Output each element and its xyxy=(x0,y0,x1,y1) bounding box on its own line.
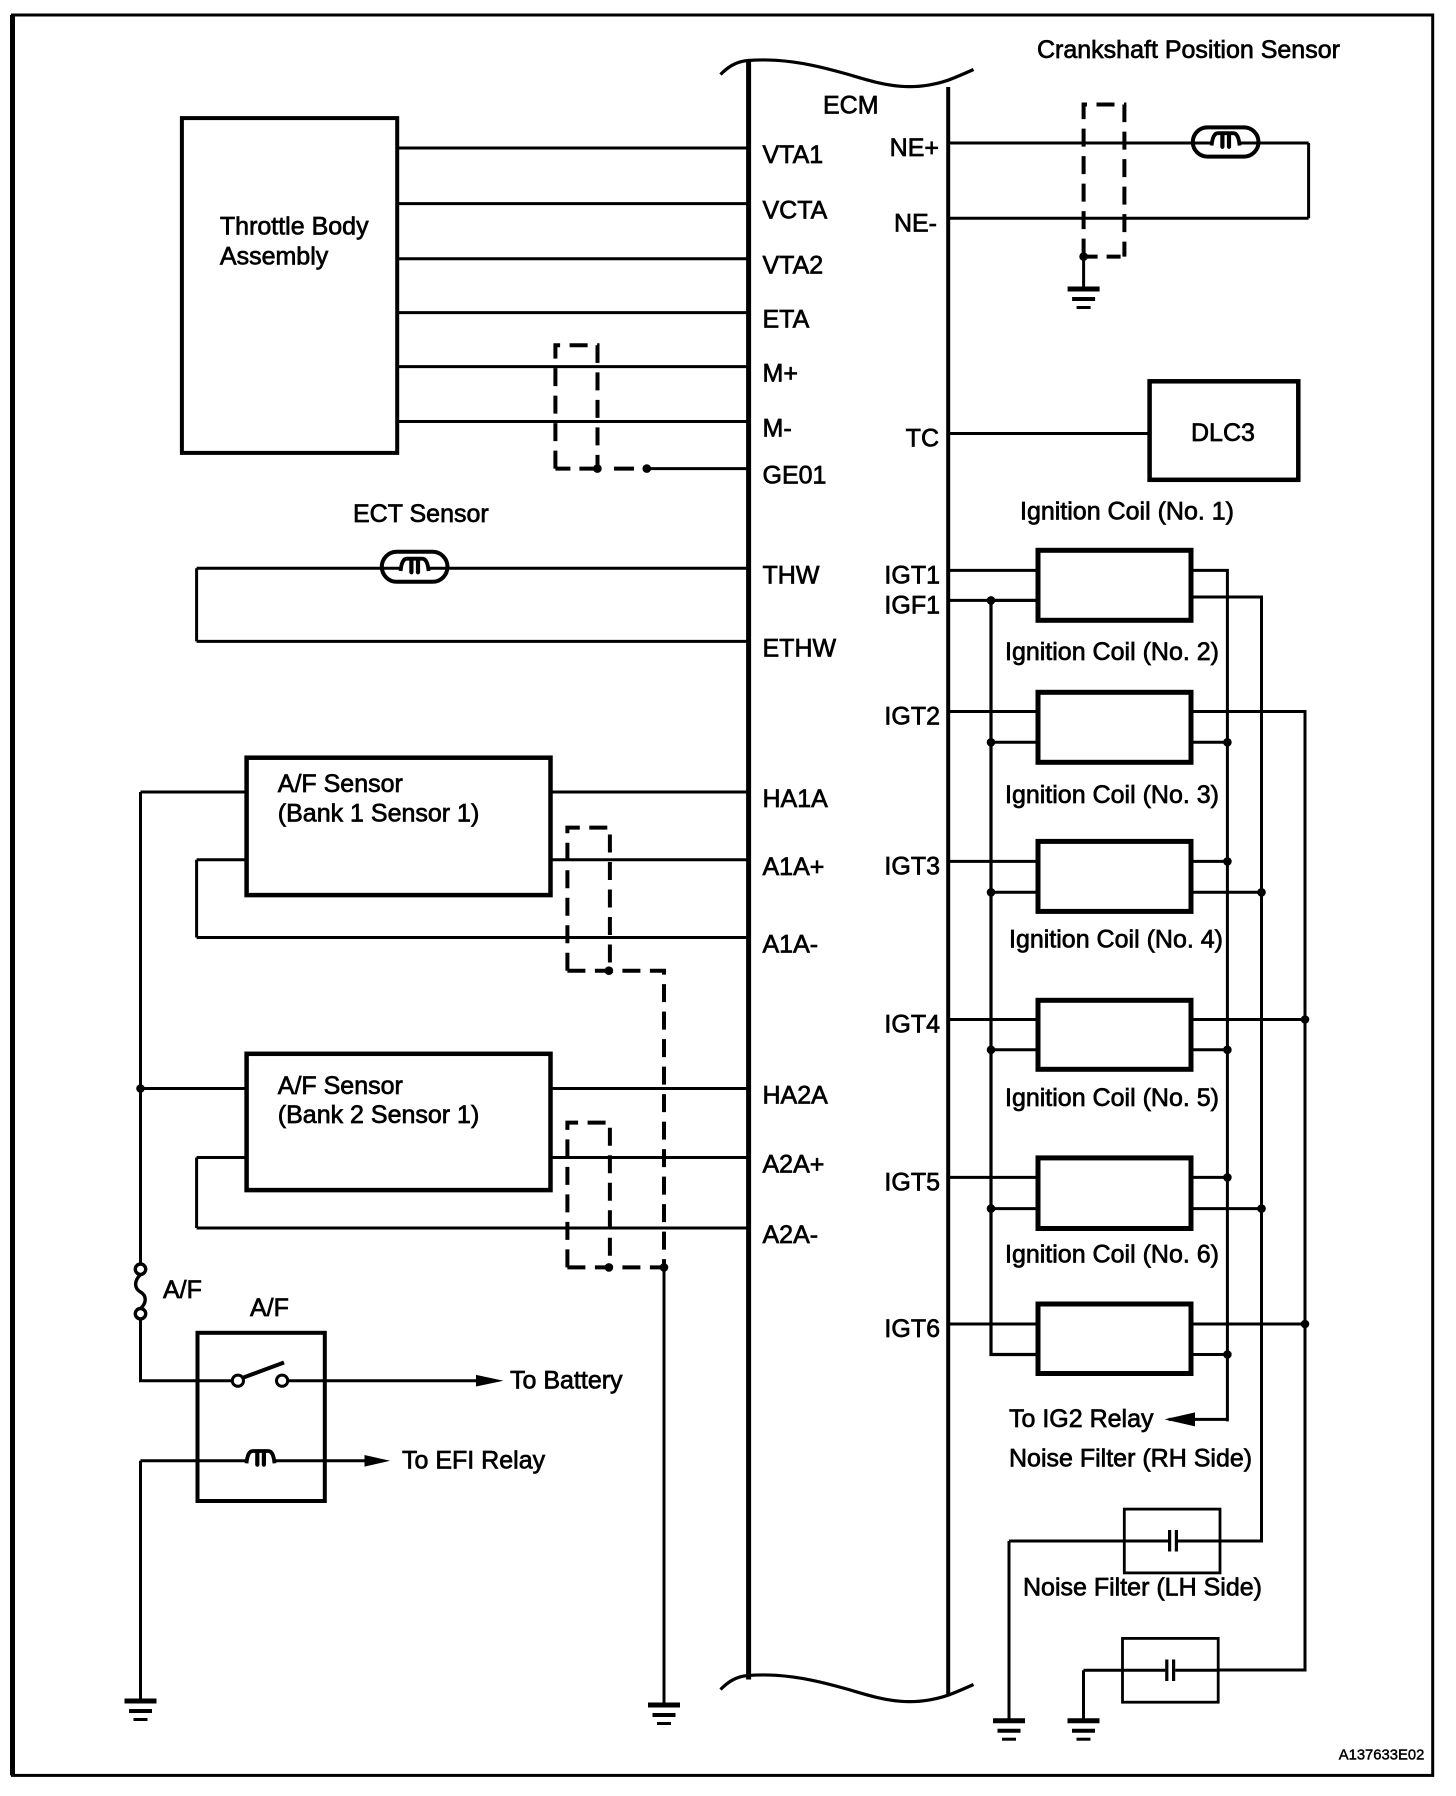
svg-text:A2A+: A2A+ xyxy=(763,1151,825,1179)
A/F relay box xyxy=(198,1333,325,1501)
svg-text:Throttle Body: Throttle Body xyxy=(220,213,369,241)
relay switch contact left xyxy=(232,1375,243,1386)
svg-text:Ignition Coil (No. 6): Ignition Coil (No. 6) xyxy=(1005,1241,1219,1269)
coil2 IGT2 wire xyxy=(948,710,1038,713)
noise filter LH box xyxy=(1123,1638,1219,1702)
svg-text:Crankshaft Position Sensor: Crankshaft Position Sensor xyxy=(1037,36,1340,64)
ECT sensor coil element xyxy=(401,559,429,573)
svg-text:Ignition Coil (No. 2): Ignition Coil (No. 2) xyxy=(1005,638,1219,666)
coil4 lower-left wire xyxy=(991,1048,1038,1051)
wire HA1A right segment xyxy=(551,791,749,794)
svg-text:IGT2: IGT2 xyxy=(884,703,940,731)
svg-text:M+: M+ xyxy=(763,360,798,388)
coil6 IGT6 wire xyxy=(948,1323,1038,1326)
crank shield bottom dashed xyxy=(1084,255,1125,259)
ECT sensor body xyxy=(382,552,448,582)
svg-text:To IG2 Relay: To IG2 Relay xyxy=(1009,1405,1154,1433)
wire GE01 xyxy=(647,467,749,470)
wire fuse to relay xyxy=(141,1319,233,1381)
NF LH capacitor left plate xyxy=(1165,1660,1168,1682)
svg-text:ETHW: ETHW xyxy=(763,634,837,662)
shield around NE wires xyxy=(1084,105,1125,257)
wire A1A+ left segment xyxy=(197,858,247,861)
wire A2A+ left segment xyxy=(197,1156,247,1159)
svg-text:To Battery: To Battery xyxy=(510,1367,623,1395)
ECM left edge xyxy=(746,62,751,1680)
bus C junction dots xyxy=(1301,1015,1310,1328)
svg-text:Ignition Coil (No. 4): Ignition Coil (No. 4) xyxy=(1009,926,1223,954)
coil4 IGT4 wire xyxy=(948,1018,1038,1021)
wire NE- xyxy=(948,217,1308,220)
wire IGT1 xyxy=(948,569,1038,572)
coil1 right top wire to bus A xyxy=(1169,570,1228,1421)
coil3 right top wire xyxy=(1191,860,1227,863)
IGF bus junction dots xyxy=(987,596,996,1213)
wire GE01 dashed part xyxy=(614,467,634,471)
A/F sensor bank1 box xyxy=(247,758,551,895)
svg-text:VCTA: VCTA xyxy=(763,197,828,225)
svg-text:ECT Sensor: ECT Sensor xyxy=(353,500,489,528)
coil2 right top wire to bus C xyxy=(1191,712,1305,1671)
junction dot shield2 xyxy=(605,1263,614,1272)
svg-text:VTA2: VTA2 xyxy=(763,252,824,280)
svg-text:A/F Sensor: A/F Sensor xyxy=(278,770,403,798)
junction dot shield1 xyxy=(605,966,614,975)
junction dot drain xyxy=(660,1263,669,1272)
junction dot GE01 xyxy=(643,464,652,473)
wire HA1A left segment xyxy=(141,791,247,794)
svg-text:A/F Sensor: A/F Sensor xyxy=(278,1072,403,1100)
junction dot shield/GE01 xyxy=(593,464,602,473)
wire IGF1 xyxy=(948,599,1038,602)
ignition coil no6 box xyxy=(1038,1304,1191,1374)
svg-text:GE01: GE01 xyxy=(763,462,827,490)
coil4 right bottom wire xyxy=(1191,1048,1227,1051)
fuse A/F element xyxy=(136,1275,146,1309)
wire VCTA xyxy=(399,202,749,205)
heater supply vertical xyxy=(139,792,142,1264)
fuse A/F top circle xyxy=(135,1264,145,1274)
wire M- xyxy=(399,420,749,423)
ignition coil no2 box xyxy=(1038,692,1191,762)
NF RH capacitor right plate xyxy=(1175,1530,1178,1552)
svg-text:A/F: A/F xyxy=(250,1294,289,1322)
ignition coil no5 box xyxy=(1038,1158,1191,1229)
crank sensor inner wire xyxy=(1193,142,1259,145)
svg-text:A1A+: A1A+ xyxy=(763,853,825,881)
svg-text:A1A-: A1A- xyxy=(763,931,819,959)
svg-text:M-: M- xyxy=(763,415,792,443)
ignition coil no3 box xyxy=(1038,841,1191,911)
NF RH capacitor left plate xyxy=(1168,1530,1171,1552)
bus A junction dots xyxy=(1223,738,1232,1359)
NF RH wire left xyxy=(1009,1540,1168,1543)
ECM top torn edge xyxy=(721,60,974,87)
svg-text:IGT4: IGT4 xyxy=(884,1011,940,1039)
ECT sensor inner wire xyxy=(382,567,448,570)
junction dot HA2A xyxy=(136,1084,145,1093)
svg-text:IGF1: IGF1 xyxy=(884,591,940,619)
svg-text:Assembly: Assembly xyxy=(220,242,329,270)
throttle body assembly box xyxy=(182,118,397,453)
coil6 right bottom wire xyxy=(1191,1353,1227,1356)
svg-text:Ignition Coil (No. 1): Ignition Coil (No. 1) xyxy=(1020,498,1234,526)
wire relay coil left xyxy=(141,1459,248,1462)
relay coil ground vertical xyxy=(139,1461,142,1701)
svg-text:HA2A: HA2A xyxy=(763,1082,829,1110)
svg-text:IGT1: IGT1 xyxy=(884,561,940,589)
ECM bottom torn edge xyxy=(721,1675,974,1702)
shield around A1A wires xyxy=(567,828,610,971)
coil1 right bottom wire to bus B xyxy=(1191,597,1262,1541)
svg-text:Noise Filter (RH Side): Noise Filter (RH Side) xyxy=(1009,1445,1252,1473)
svg-text:DLC3: DLC3 xyxy=(1191,419,1255,447)
NF LH capacitor right plate xyxy=(1172,1660,1175,1682)
svg-text:TC: TC xyxy=(906,425,939,453)
wire HA2A right segment xyxy=(551,1087,749,1090)
junction dot crank shield xyxy=(1079,252,1088,261)
crank shield ground stem xyxy=(1082,257,1085,289)
svg-text:Ignition Coil (No. 5): Ignition Coil (No. 5) xyxy=(1005,1084,1219,1112)
ground NF RH xyxy=(993,1721,1025,1740)
crank sensor return vertical xyxy=(1307,143,1310,218)
relay switch lever xyxy=(244,1363,285,1378)
coil3 IGT3 wire xyxy=(948,860,1038,863)
svg-text:(Bank 2 Sensor 1): (Bank 2 Sensor 1) xyxy=(278,1101,480,1129)
shield1 drain dashed xyxy=(567,971,664,1268)
svg-text:IGT3: IGT3 xyxy=(884,852,940,880)
ECM right edge xyxy=(946,87,950,1696)
NF LH wire left xyxy=(1084,1669,1166,1672)
coil6 right top wire xyxy=(1191,1323,1305,1326)
NF LH wire right xyxy=(1175,1669,1218,1672)
shield2 bottom dashed xyxy=(567,1265,664,1269)
svg-text:IGT6: IGT6 xyxy=(884,1315,940,1343)
fuse A/F bottom circle xyxy=(135,1309,145,1319)
wire THW xyxy=(197,567,749,570)
wire A2A- xyxy=(197,1227,749,1230)
svg-text:THW: THW xyxy=(763,561,820,589)
shield bottom dashed segment xyxy=(555,467,597,471)
NF RH wire right xyxy=(1178,1540,1220,1543)
ground crank shield xyxy=(1068,289,1100,308)
wire to battery xyxy=(288,1379,478,1382)
arrowhead to IG2 relay xyxy=(1165,1412,1196,1426)
coil5 lower-left wire xyxy=(991,1207,1038,1210)
coil4 right top wire xyxy=(1191,1018,1305,1021)
crank sensor body xyxy=(1193,127,1259,156)
noise filter RH box xyxy=(1124,1509,1220,1573)
coil5 right top wire xyxy=(1191,1176,1227,1179)
svg-text:NE-: NE- xyxy=(894,209,937,237)
wire ETA xyxy=(399,311,749,314)
IGF bus vertical xyxy=(991,600,1038,1354)
svg-text:(Bank 1 Sensor 1): (Bank 1 Sensor 1) xyxy=(278,799,480,827)
coil5 IGT5 wire xyxy=(948,1176,1038,1179)
svg-text:Ignition Coil (No. 3): Ignition Coil (No. 3) xyxy=(1005,781,1219,809)
svg-text:ETA: ETA xyxy=(763,306,810,334)
svg-text:To EFI Relay: To EFI Relay xyxy=(402,1447,546,1475)
svg-text:HA1A: HA1A xyxy=(763,785,829,813)
wire A1A- xyxy=(197,936,749,939)
svg-text:A2A-: A2A- xyxy=(763,1221,819,1249)
bus B junction dots xyxy=(1257,888,1266,1213)
wire A2A+ right segment xyxy=(551,1156,749,1159)
wire VTA2 xyxy=(399,257,749,260)
svg-text:ECM: ECM xyxy=(823,92,879,120)
coil3 lower-left wire xyxy=(991,891,1038,894)
coil5 right bottom wire xyxy=(1191,1207,1262,1210)
ECT sensor left return wire xyxy=(195,568,198,641)
A2A loop vertical xyxy=(195,1158,198,1229)
svg-text:A/F: A/F xyxy=(163,1276,202,1304)
svg-text:VTA1: VTA1 xyxy=(763,141,824,169)
svg-text:A137633E02: A137633E02 xyxy=(1339,1748,1425,1764)
arrowhead to battery xyxy=(476,1375,504,1387)
svg-text:Noise Filter (LH Side): Noise Filter (LH Side) xyxy=(1023,1574,1262,1602)
ground NF LH xyxy=(1068,1721,1100,1740)
wire ETHW xyxy=(197,640,749,643)
wire relay coil right / to EFI relay xyxy=(273,1459,368,1462)
shield drain to ground xyxy=(663,1267,666,1705)
ground shield drain xyxy=(648,1705,680,1724)
shield around A2A wires xyxy=(567,1123,610,1268)
svg-text:NE+: NE+ xyxy=(890,134,939,162)
relay switch contact right xyxy=(277,1375,288,1386)
ignition coil no4 box xyxy=(1038,1000,1191,1069)
shield around M+/M- wires xyxy=(555,345,597,468)
DLC3 box xyxy=(1150,381,1299,480)
ignition coil no1 box xyxy=(1038,550,1191,620)
wire M+ xyxy=(399,365,749,368)
wire TC xyxy=(948,432,1149,435)
wire VTA1 xyxy=(399,147,749,150)
NF LH ground vertical xyxy=(1082,1670,1085,1720)
coil2 right bottom wire xyxy=(1191,741,1227,744)
arrowhead to EFI relay xyxy=(365,1455,391,1467)
wire A1A+ right segment xyxy=(551,858,749,861)
wire NE+ xyxy=(948,142,1308,145)
ground relay coil xyxy=(125,1701,157,1720)
A1A loop vertical xyxy=(195,860,198,938)
wire HA2A left segment xyxy=(141,1087,247,1090)
crank sensor coil element xyxy=(1212,133,1240,147)
relay coil element xyxy=(247,1451,275,1465)
coil2 lower-left wire xyxy=(991,741,1038,744)
coil3 right bottom wire xyxy=(1191,891,1262,894)
svg-text:IGT5: IGT5 xyxy=(884,1168,940,1196)
coil1 lower-left wire xyxy=(991,599,1038,602)
A/F sensor bank2 box xyxy=(247,1054,551,1190)
NF RH ground vertical xyxy=(1008,1541,1011,1721)
